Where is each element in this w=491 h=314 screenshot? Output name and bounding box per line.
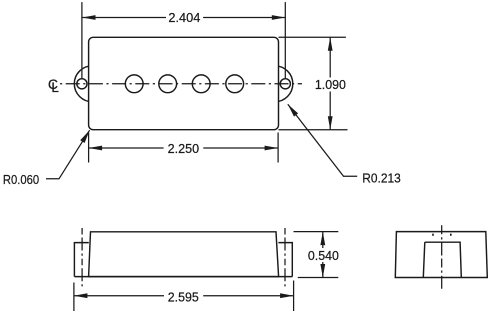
leader R0.060 arrowhead	[80, 130, 89, 143]
dimension 1.090 bottom arrowhead	[328, 116, 333, 130]
right mounting ear arc R0.213	[257, 66, 293, 102]
svg-text:0.540: 0.540	[308, 248, 339, 263]
pole piece hole 1	[125, 75, 143, 93]
dimension 2.595 extension line left	[73, 283, 75, 312]
right screw hole	[280, 79, 290, 89]
dimension 2.595 line	[74, 295, 294, 297]
dimension 0.540 line	[322, 232, 324, 278]
dimension 1.090 extension line bottom	[279, 129, 348, 131]
dimension 1.090 extension line top	[279, 36, 346, 38]
leader R0.213 arrowhead	[288, 104, 298, 116]
dimension 2.595 left arrowhead	[74, 293, 88, 298]
left mounting ear arc R0.213	[74, 66, 110, 102]
dimension 1.090 line	[329, 37, 331, 129]
dimension 2.404 left arrowhead	[82, 15, 96, 20]
end view hidden tick left	[432, 234, 434, 236]
dimension 2.595 right arrowhead	[280, 293, 294, 298]
dimension 0.540 bottom arrowhead	[320, 264, 325, 278]
end view hidden tick right	[450, 234, 452, 236]
dimension 0.540 top arrowhead	[320, 232, 325, 246]
dimension 2.250 right arrowhead	[265, 146, 279, 151]
end view outer outline	[395, 232, 487, 278]
svg-text:L: L	[51, 80, 59, 95]
dimension 2.404 line	[82, 17, 285, 19]
pole piece hole 3	[192, 75, 210, 93]
dimension 1.090 top arrowhead	[328, 37, 333, 51]
end view centerline	[441, 225, 443, 290]
side view left tab centerline	[81, 228, 83, 288]
svg-text:R0.213: R0.213	[362, 170, 401, 185]
dimension 2.250 left arrowhead	[89, 146, 103, 151]
dimension 2.250 line	[89, 147, 279, 149]
dimension 2.404 extension line left	[81, 2, 83, 79]
svg-text:1.090: 1.090	[315, 77, 346, 92]
side view body outline	[89, 232, 279, 277]
dimension 2.404 extension line right	[284, 2, 286, 79]
side view bottom edge	[74, 276, 292, 278]
pole piece hole 4	[226, 75, 244, 93]
dimension 2.250 extension line right	[277, 133, 279, 163]
dimension 2.250 extension line left	[88, 133, 90, 163]
side view left mounting tab	[74, 243, 88, 277]
horizontal centerline (top view)	[60, 83, 302, 85]
svg-text:2.595: 2.595	[168, 290, 199, 305]
pickup cover body outline (top view)	[89, 37, 279, 129]
svg-text:2.250: 2.250	[168, 141, 200, 156]
dimension 0.540 extension line bottom	[298, 277, 339, 279]
dimension 2.404 right arrowhead	[272, 15, 286, 20]
leader R0.060 line	[46, 130, 90, 179]
svg-text:2.404: 2.404	[168, 10, 200, 25]
svg-text:R0.060: R0.060	[3, 172, 39, 187]
dimension 0.540 extension line top	[294, 231, 339, 233]
side view right tab centerline	[284, 228, 286, 288]
dimension 2.595 extension line right	[293, 281, 295, 312]
leader R0.213 line	[288, 104, 357, 176]
pole piece hole 2	[159, 75, 177, 93]
left screw hole	[77, 79, 87, 89]
side view right mounting tab	[278, 243, 292, 277]
end view boss outline	[423, 242, 461, 277]
